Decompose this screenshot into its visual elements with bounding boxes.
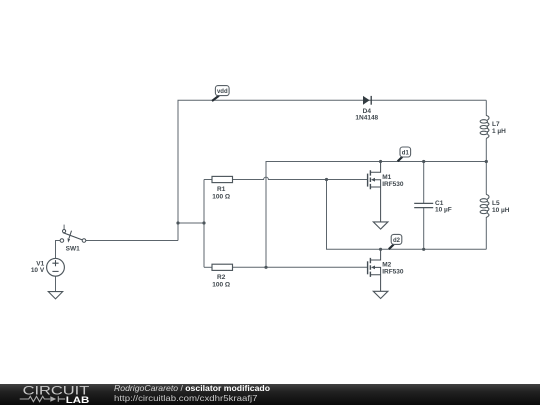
svg-text:10 µF: 10 µF	[435, 207, 452, 214]
svg-text:10 µH: 10 µH	[492, 207, 510, 214]
svg-text:100 Ω: 100 Ω	[212, 194, 230, 201]
svg-text:IRF530: IRF530	[382, 269, 404, 276]
svg-text:vdd: vdd	[217, 89, 228, 95]
svg-text:IRF530: IRF530	[382, 181, 404, 188]
svg-text:L5: L5	[492, 200, 500, 207]
svg-text:http://circuitlab.com/cxdhr5kr: http://circuitlab.com/cxdhr5kraafj7	[114, 394, 258, 403]
svg-text:RodrigoCarareto / oscilator mo: RodrigoCarareto / oscilator modificado	[114, 384, 270, 393]
svg-text:L7: L7	[492, 121, 500, 128]
svg-text:1 µH: 1 µH	[492, 128, 506, 135]
svg-text:M2: M2	[382, 262, 391, 269]
svg-text:SW1: SW1	[66, 246, 80, 253]
svg-text:M1: M1	[382, 174, 391, 181]
svg-text:LAB: LAB	[66, 395, 90, 405]
svg-text:10 V: 10 V	[31, 267, 45, 274]
svg-text:R2: R2	[217, 274, 226, 281]
svg-text:100 Ω: 100 Ω	[212, 281, 230, 288]
svg-text:1N4148: 1N4148	[355, 115, 378, 122]
svg-text:R1: R1	[217, 186, 226, 193]
svg-text:d1: d1	[402, 151, 410, 157]
svg-text:d2: d2	[393, 238, 401, 244]
